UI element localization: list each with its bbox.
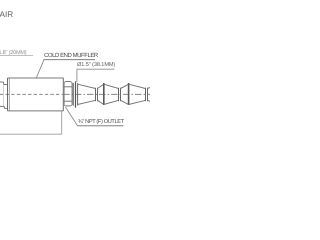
cone B expanding top (98, 84, 104, 88)
leader npt outlet (66, 107, 78, 126)
hex nut top left chamfer (64, 82, 65, 83)
waist pair V1a (95, 88, 97, 101)
waist pair V2a (118, 88, 120, 101)
centerline left segment (0, 93, 63, 95)
waist pair V3a (145, 88, 147, 101)
disc D3 (128, 83, 130, 105)
cone A converging top (78, 84, 96, 88)
end cap seam line (8, 78, 10, 111)
cone E converging bottom (129, 100, 146, 104)
disc D2 (103, 83, 105, 105)
leader cold end muffler (36, 60, 44, 78)
cone C converging bottom (104, 100, 119, 104)
underline cold end muffler (44, 59, 96, 61)
label npt outlet (78, 119, 124, 125)
waist pair V2b (120, 88, 122, 101)
underline dia label (77, 68, 115, 70)
label dia 1.5in (77, 62, 115, 68)
cone F expanding bottom cut (148, 100, 151, 101)
washer disc W2 (75, 81, 77, 107)
leader to off-page vertical (61, 111, 63, 134)
hex nut top edge (65, 81, 71, 83)
cone F expanding top cut (148, 88, 151, 89)
end cap left face (7, 78, 9, 111)
label 1.8in 20mm (0, 50, 26, 56)
cone C converging top (104, 84, 119, 88)
muffler body bottom (8, 110, 64, 112)
hex nut bottom right chamfer (71, 105, 72, 106)
cone A converging bottom (78, 100, 96, 104)
underline 20mm label (0, 55, 33, 57)
cone D expanding bottom (121, 100, 129, 104)
cone D expanding top (121, 84, 129, 88)
muffler body right face (62, 78, 64, 111)
cone B expanding bottom (98, 100, 104, 104)
muffler body top (8, 77, 64, 79)
inlet stub top line (0, 81, 4, 83)
leader to off-page horizontal (0, 133, 62, 135)
collar inner faint line (2, 85, 4, 106)
hex nut bottom edge (65, 105, 71, 107)
hex nut right face (71, 83, 73, 105)
inlet stub bottom line (0, 105, 4, 107)
collar top line (4, 84, 8, 86)
cone E converging top (129, 84, 146, 88)
waist pair V1b (97, 88, 99, 101)
hex nut top right chamfer (71, 82, 72, 83)
underline npt outlet (78, 125, 124, 127)
label AIR (0, 10, 13, 19)
label cold end muffler (44, 53, 98, 59)
waist pair V3b (147, 88, 149, 101)
collar bottom line (4, 107, 7, 109)
leader dia label (76, 69, 78, 82)
hex nut left face (63, 83, 65, 105)
inlet stub bottom step (3, 106, 5, 108)
washer disc W3 (77, 83, 79, 106)
hex nut lower flat line (64, 100, 72, 102)
hex nut upper flat line (64, 86, 72, 88)
centerline right segment (63, 93, 150, 95)
hex nut bottom left chamfer (64, 105, 65, 106)
washer disc W1 (72, 83, 74, 106)
inlet stub top step (3, 82, 5, 85)
